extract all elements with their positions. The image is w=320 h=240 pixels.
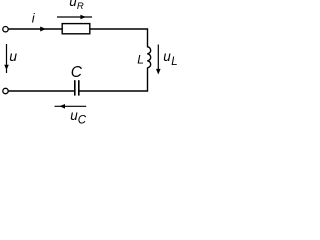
svg-text:u: u <box>9 48 17 64</box>
wire <box>9 28 63 30</box>
svg-text:uR: uR <box>69 0 84 12</box>
svg-text:uC: uC <box>70 108 87 126</box>
wire <box>79 68 148 91</box>
wire <box>90 29 148 47</box>
resistor R <box>62 24 90 34</box>
svg-text:uL: uL <box>163 49 177 68</box>
terminal node (bottom-left) <box>3 88 8 93</box>
wire <box>9 90 75 92</box>
inductor L <box>147 47 151 68</box>
voltage arrow uC <box>55 105 87 107</box>
terminal node (top-left) <box>3 27 8 32</box>
svg-text:C: C <box>71 64 83 81</box>
voltage arrow uL <box>157 45 159 74</box>
svg-text:L: L <box>137 53 144 67</box>
capacitor C <box>74 80 76 95</box>
svg-text:i: i <box>32 11 36 26</box>
voltage arrow uR <box>57 16 92 18</box>
current arrow i <box>40 27 46 32</box>
voltage arrow u <box>6 44 8 73</box>
